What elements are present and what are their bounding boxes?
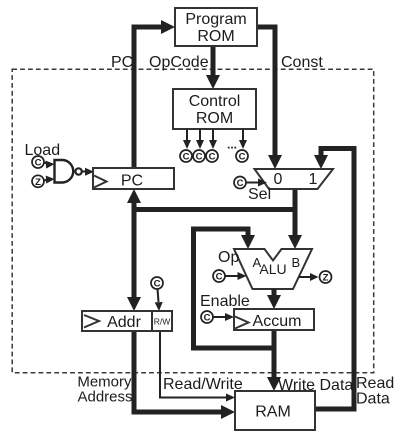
svg-text:Z: Z [35, 177, 41, 188]
arrow Z into NAND gate [43, 176, 55, 184]
circled C control signal 4 [236, 150, 248, 163]
arrow NAND output into PC register [82, 168, 94, 176]
svg-text:0: 0 [274, 171, 283, 188]
svg-text:Load: Load [25, 142, 61, 159]
register Addr [82, 311, 152, 331]
wire mux output down to ALU B input [288, 189, 302, 249]
Sel arrow into mux [247, 179, 268, 187]
wire ALU output to Accum [267, 289, 281, 309]
arrow C into R/W field [155, 289, 163, 311]
label Sel [248, 186, 271, 203]
label OpCode bus [149, 54, 209, 71]
wire Read/Write: R/W field to RAM [160, 331, 235, 402]
circled C read/write control [151, 277, 163, 290]
label Write Data [278, 377, 353, 394]
svg-text:RAM: RAM [255, 404, 291, 421]
control ROM output wires with arrowheads [183, 129, 247, 149]
NAND gate (AND shape with output bubble) [55, 160, 82, 183]
circled C Sel control [234, 177, 246, 190]
svg-text:C: C [209, 152, 216, 163]
wire Const: Program ROM to mux input 0 [257, 27, 282, 169]
svg-text:ROM: ROM [196, 110, 233, 127]
arrow C into NAND gate [44, 161, 55, 169]
svg-text:...: ... [227, 138, 237, 152]
label Memory Address [77, 374, 132, 406]
label Const bus [281, 54, 323, 71]
svg-text:Addr: Addr [107, 314, 141, 331]
svg-text:Control: Control [189, 93, 241, 110]
svg-text:Const: Const [281, 54, 323, 71]
Enable arrow into Accum [214, 313, 235, 321]
svg-text:C: C [204, 313, 211, 324]
svg-text:OpCode: OpCode [149, 54, 209, 71]
svg-text:Accum: Accum [253, 313, 302, 330]
svg-text:ALU: ALU [259, 261, 286, 277]
wire mux output branch to PC and Addr [127, 189, 295, 311]
circled C PC load control [32, 156, 44, 169]
svg-text:R/W: R/W [154, 317, 171, 327]
svg-text:C: C [216, 272, 223, 283]
wire Accum feedback loop to ALU A input [194, 229, 275, 348]
label Read/Write [163, 376, 243, 393]
circled C control signal 3 [206, 150, 218, 163]
svg-text:B: B [292, 255, 301, 270]
svg-text:Data: Data [356, 391, 390, 408]
Z flag arrow out of ALU [299, 273, 319, 281]
circled Z flag output [320, 271, 332, 284]
wire PC register to Program ROM with arrowhead [134, 20, 175, 168]
svg-text:C: C [196, 152, 203, 163]
circled C accumulator enable [201, 311, 213, 324]
register PC [93, 168, 174, 190]
svg-text:C: C [239, 152, 246, 163]
svg-text:Z: Z [323, 273, 329, 284]
svg-text:Op: Op [218, 249, 239, 266]
svg-text:ROM: ROM [197, 28, 234, 45]
svg-text:C: C [154, 279, 161, 290]
label Enable [200, 293, 250, 310]
svg-text:Read: Read [356, 375, 394, 392]
svg-text:PC: PC [121, 173, 143, 190]
svg-text:PC: PC [111, 54, 133, 71]
wire Read Data: RAM to mux input 1 [314, 149, 354, 410]
wire OpCode: Program ROM to Control ROM [206, 46, 220, 89]
mux 2-to-1 [255, 169, 334, 189]
circled C control signal 1 [180, 150, 192, 163]
svg-text:C: C [35, 158, 42, 169]
ALU [234, 249, 312, 289]
wire Memory Address: Addr to RAM [134, 331, 235, 419]
ellipsis dots [227, 138, 237, 152]
label PC bus [111, 54, 133, 71]
label Load [25, 142, 61, 159]
box Program ROM [175, 8, 257, 46]
svg-text:Read/Write: Read/Write [163, 376, 243, 393]
register Accum [234, 309, 314, 330]
dashed datapath boundary box [12, 69, 374, 373]
circled C ALU op control [213, 270, 225, 283]
svg-text:C: C [237, 178, 244, 189]
box Control ROM [173, 89, 256, 129]
Op arrow into ALU [226, 272, 247, 280]
label Read Data [356, 375, 394, 408]
svg-text:1: 1 [309, 171, 318, 188]
wire Write Data: Accum to RAM [267, 344, 281, 391]
svg-text:Address: Address [77, 389, 132, 406]
register field R/W [152, 311, 172, 331]
circled C control signal 2 [193, 150, 205, 163]
svg-text:Enable: Enable [200, 293, 250, 310]
circled Z flag input to gate [32, 175, 44, 188]
svg-text:Sel: Sel [248, 186, 271, 203]
label Op [218, 249, 239, 266]
svg-text:C: C [183, 152, 190, 163]
box RAM [235, 391, 315, 430]
svg-text:Program: Program [185, 11, 246, 28]
